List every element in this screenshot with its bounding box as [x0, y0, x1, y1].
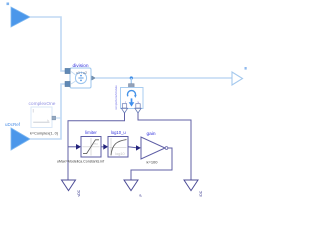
svg-text:vDC: vDC	[77, 189, 81, 196]
svg-text:k=Complex(1, 0): k=Complex(1, 0)	[30, 131, 59, 135]
wire log10 to gain	[128, 147, 137, 148]
wire limiter to log10	[101, 146, 104, 148]
input connector IN1 (RealInput triangle)	[11, 7, 30, 27]
division output chevron	[92, 76, 96, 80]
svg-text:simpleSolarModule: simpleSolarModule	[114, 85, 118, 110]
log10 input arrowhead	[103, 144, 108, 150]
wire gain output to output P	[131, 148, 172, 180]
output connector iDC (RealOutput triangle down)	[184, 180, 198, 191]
wire junction down to PV top pin	[130, 78, 132, 84]
block gain triangle	[141, 137, 165, 159]
wire tee to limiter input	[68, 146, 77, 148]
output connector P (RealOutput triangle down)	[124, 180, 138, 191]
block log10_u	[108, 137, 128, 158]
wire PV pin i to limiter and output vDC	[68, 113, 125, 180]
svg-text:complexOne: complexOne	[29, 101, 56, 107]
wire IN1 to division.u1	[30, 17, 66, 71]
svg-text:iDC: iDC	[199, 190, 203, 196]
svg-text:log10_u: log10_u	[111, 130, 127, 135]
PV top connector square	[129, 84, 135, 90]
output y label fragment	[245, 67, 247, 70]
block simpleSolarModule (PV)	[121, 88, 144, 109]
svg-text:log10: log10	[115, 152, 124, 156]
svg-text:limiter: limiter	[85, 130, 97, 135]
input connector IN2 (RealInput triangle)	[11, 128, 30, 150]
output connector vDC (RealOutput triangle down)	[62, 180, 76, 191]
wire complexOne.y to node	[56, 117, 62, 119]
wire division.y to output arrow	[95, 77, 232, 79]
limiter input arrowhead	[76, 144, 81, 150]
svg-text:k=100: k=100	[146, 159, 158, 164]
division input u2 square	[65, 81, 70, 86]
gain output circle	[165, 147, 168, 150]
block complexOne (ComplexConstant)	[31, 107, 52, 128]
svg-text:uMax=Modelica.Constants.inf: uMax=Modelica.Constants.inf	[57, 160, 104, 164]
complexOne output connector square	[52, 116, 56, 120]
wire IN2 to division.u2	[30, 84, 66, 139]
gain input arrowhead	[136, 145, 141, 150]
wire PV pin v to output iDC	[138, 113, 191, 180]
input connector label fragment (top-left)	[7, 3, 10, 6]
output connector y (RealOutput triangle, right edge)	[232, 72, 243, 85]
svg-text:uMax: uMax	[93, 144, 98, 146]
svg-text:gain: gain	[146, 131, 155, 137]
svg-text:uDcRef: uDcRef	[5, 122, 21, 127]
block division	[70, 68, 91, 88]
svg-text:u1 / u2: u1 / u2	[76, 71, 87, 75]
division input u1 square	[65, 68, 70, 73]
junction node	[130, 76, 133, 79]
block limiter	[81, 137, 101, 158]
